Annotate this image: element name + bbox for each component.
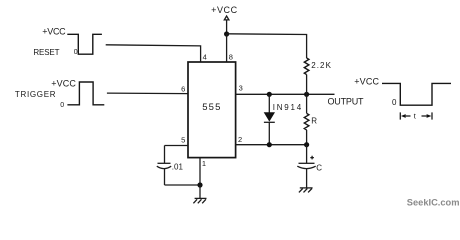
label + (capacitor C polarity) <box>310 156 314 160</box>
svg-text:TRIGGER: TRIGGER <box>15 90 56 99</box>
wire pin 8 to +VCC <box>226 34 228 63</box>
wire pin 5 down to capacitor .01 <box>164 146 166 164</box>
svg-text:+VCC: +VCC <box>51 79 76 89</box>
wire pin 1 <box>199 158 201 185</box>
wire node to capacitor C <box>306 145 308 163</box>
junction dot pin2 wire / diode <box>267 142 272 147</box>
svg-text:SeekIC.com: SeekIC.com <box>407 198 460 208</box>
wire 2.2K to OUTPUT node <box>306 75 308 95</box>
junction dot pin 1 / ground <box>197 182 202 187</box>
capacitor .01 <box>157 163 171 168</box>
diode D1 1N914 symbol <box>264 112 275 122</box>
junction dot +VCC / pin 8 <box>224 31 229 36</box>
ground symbol below pin 1 <box>193 198 206 203</box>
svg-text:IN914: IN914 <box>273 103 303 112</box>
wire RESET waveform to pin 4 <box>106 45 201 63</box>
junction dot pin3 wire / resistor chain <box>304 92 309 97</box>
resistor R <box>304 113 309 130</box>
svg-text:6: 6 <box>181 84 185 93</box>
wire +VCC arrow to rail <box>226 20 228 34</box>
svg-text:4: 4 <box>203 53 207 62</box>
resistor R wire from OUTPUT node <box>306 94 308 113</box>
svg-text:2.2K: 2.2K <box>311 61 332 70</box>
power +VCC arrow symbol <box>224 16 229 20</box>
wire pin 2 to R/C node <box>236 144 307 146</box>
dimension line t (pulse width) <box>400 112 432 119</box>
svg-text:0: 0 <box>392 98 397 107</box>
wire junction to ground symbol <box>199 185 201 198</box>
svg-text:0: 0 <box>74 49 78 56</box>
wire capacitor C to ground <box>306 169 308 188</box>
svg-text:.01: .01 <box>172 162 184 171</box>
OUTPUT pulse waveform <box>382 83 451 105</box>
svg-text:3: 3 <box>239 84 243 93</box>
svg-text:R: R <box>311 117 317 126</box>
svg-text:1: 1 <box>202 159 206 168</box>
svg-text:2: 2 <box>238 135 242 144</box>
svg-text:5: 5 <box>181 135 185 144</box>
wire R to pin 2 wire <box>306 130 308 145</box>
IC U1 555 timer body <box>188 62 236 158</box>
svg-text:555: 555 <box>202 102 221 113</box>
svg-text:OUTPUT: OUTPUT <box>328 97 365 107</box>
wire capacitor .01 to ground wire <box>164 169 166 185</box>
svg-text:8: 8 <box>229 53 233 62</box>
wire ground return to pin 1 <box>165 184 201 186</box>
svg-text:+VCC: +VCC <box>42 26 66 36</box>
svg-text:t: t <box>414 112 417 121</box>
wire +VCC rail to 2.2K resistor <box>227 34 307 58</box>
svg-text:0: 0 <box>60 102 64 109</box>
svg-text:+VCC: +VCC <box>211 5 238 15</box>
junction dot pin2 wire / capacitor C <box>304 142 309 147</box>
wire pin 3 to OUTPUT node <box>236 93 335 95</box>
capacitor C (polarized) <box>297 163 315 168</box>
svg-text:+VCC: +VCC <box>354 77 379 87</box>
svg-text:C: C <box>316 164 322 173</box>
junction dot pin3 wire / diode <box>267 92 272 97</box>
svg-text:RESET: RESET <box>33 48 59 57</box>
resistor 2.2K <box>304 58 309 75</box>
wire pin 5 <box>165 145 189 147</box>
diode D1 wire from pin3 node <box>268 94 270 114</box>
ground symbol below C <box>299 188 313 193</box>
RESET input pulse waveform <box>67 34 102 54</box>
TRIGGER input pulse waveform <box>67 82 104 105</box>
wire diode cathode to pin 2 wire <box>268 122 270 144</box>
wire TRIGGER waveform to pin 6 <box>107 92 188 95</box>
